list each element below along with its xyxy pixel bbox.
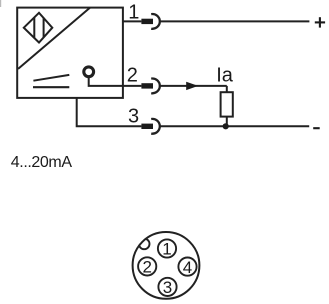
adjustment wedge base line bbox=[33, 86, 69, 88]
connector plug pin 1 bbox=[141, 19, 153, 24]
minus terminal bbox=[313, 127, 320, 129]
sensor body box bbox=[17, 8, 123, 98]
inductive sensor symbol (diamond) bbox=[24, 13, 53, 43]
diamond inner line right bbox=[43, 18, 45, 38]
resistor bottom lead bbox=[226, 117, 228, 127]
svg-text:3: 3 bbox=[163, 278, 172, 297]
svg-text:1: 1 bbox=[162, 240, 171, 259]
svg-text:2: 2 bbox=[142, 258, 151, 277]
resistor Ia body bbox=[221, 92, 233, 116]
connector plug pin 2 bbox=[141, 83, 153, 88]
adjustment wedge slanted line bbox=[33, 75, 69, 81]
svg-text:4: 4 bbox=[183, 258, 192, 277]
connector socket arc 2 bbox=[151, 79, 160, 94]
connector plug pin 3 bbox=[141, 124, 153, 129]
wire pin1 from box bbox=[123, 20, 141, 22]
wire pin3 from box bottom bbox=[77, 98, 142, 126]
wire pin3 to minus bbox=[159, 125, 309, 127]
keying notch circle bbox=[139, 239, 150, 250]
LED stem wire bbox=[89, 77, 123, 86]
wire pin2 stub from box bbox=[123, 85, 141, 87]
current direction arrow bbox=[186, 82, 198, 90]
connector socket arc 1 bbox=[151, 14, 160, 29]
pin 4 circle bbox=[178, 258, 196, 276]
pin 2 circle bbox=[138, 257, 156, 275]
connector face outer circle bbox=[133, 232, 200, 299]
svg-text:2: 2 bbox=[127, 65, 138, 87]
LED indicator circle bbox=[84, 67, 94, 77]
diamond inner line left bbox=[33, 17, 35, 38]
connector socket arc 3 bbox=[151, 119, 160, 134]
plus terminal bbox=[315, 17, 325, 27]
diagonal divider bbox=[18, 8, 90, 69]
svg-text:3: 3 bbox=[128, 105, 139, 127]
svg-text:Ia: Ia bbox=[216, 65, 234, 87]
svg-text:4...20mA: 4...20mA bbox=[11, 154, 73, 171]
wire pin1 to plus bbox=[159, 20, 309, 22]
scan artifact top-left bbox=[0, 0, 1, 7]
resistor top lead bbox=[226, 86, 228, 92]
pin 1 circle bbox=[158, 239, 176, 257]
pin 3 circle bbox=[158, 278, 176, 296]
wire pin2 to resistor bbox=[159, 85, 227, 87]
svg-text:1: 1 bbox=[128, 2, 139, 24]
junction dot bbox=[223, 123, 229, 129]
